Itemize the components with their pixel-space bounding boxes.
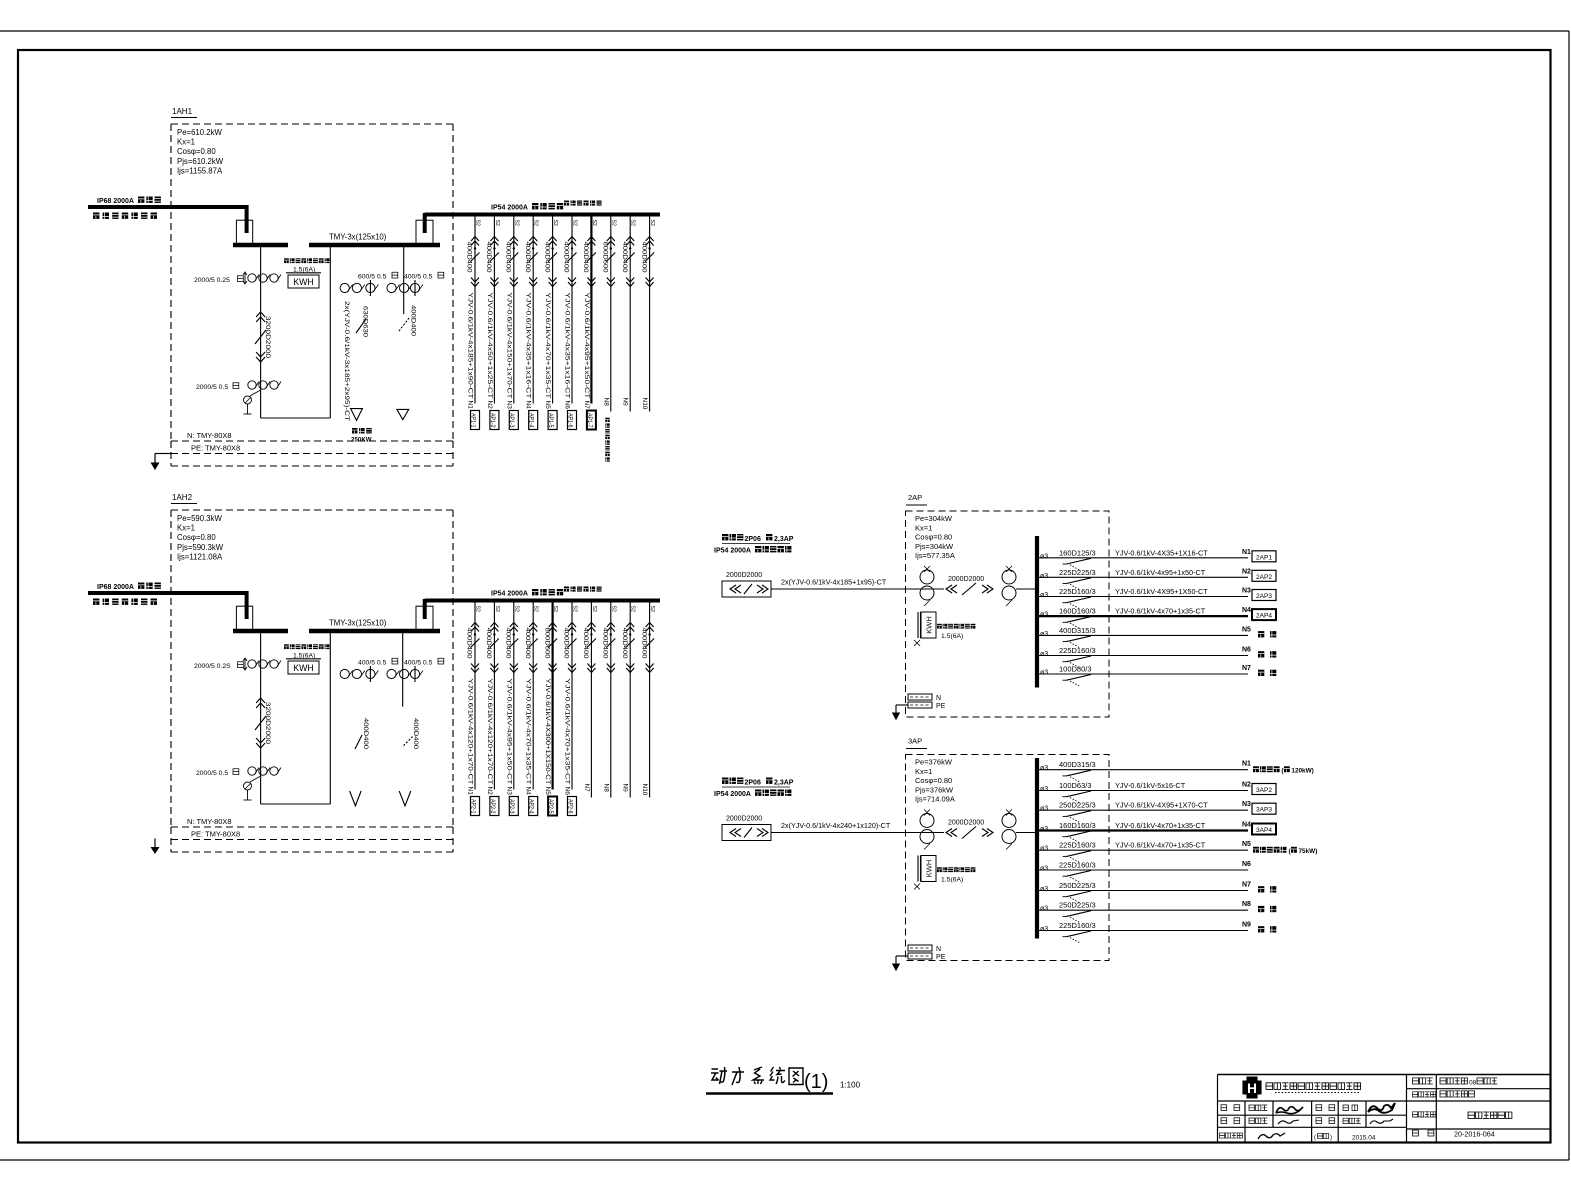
svg-text:N5: N5 bbox=[1242, 626, 1251, 633]
svg-text:600D600: 600D600 bbox=[602, 242, 609, 273]
drawout contact (upper) feeder N6 bbox=[568, 623, 576, 632]
svg-text:N10: N10 bbox=[641, 398, 648, 410]
svg-text:YJV-0.6/1kV-4x120+1x70-CT: YJV-0.6/1kV-4x120+1x70-CT bbox=[467, 679, 474, 785]
project fields right side bbox=[1407, 1088, 1551, 1090]
wire: feeder N9 drop from busway bbox=[629, 215, 631, 412]
svg-text:2x(YJV-0.6/1kV-3x185+2x95)-CT: 2x(YJV-0.6/1kV-3x185+2x95)-CT bbox=[343, 301, 350, 421]
field label: project name bbox=[1413, 1092, 1418, 1097]
svg-text:YJV-0.6/1kV-4X35+1X16-CT: YJV-0.6/1kV-4X35+1X16-CT bbox=[1115, 548, 1208, 557]
svg-text:Ijs=577.35A: Ijs=577.35A bbox=[915, 551, 955, 560]
breaker 400D400 feeder N2 bbox=[490, 253, 499, 262]
drawout contact (upper) feeder N1 bbox=[471, 623, 479, 632]
wire: feeder N8 drop from busway bbox=[610, 601, 612, 798]
svg-text:ø3: ø3 bbox=[1040, 592, 1048, 599]
distribution box AP2-6 feeder N6 bbox=[568, 797, 577, 816]
svg-text:N1: N1 bbox=[1242, 549, 1251, 556]
svg-text:2,3AP: 2,3AP bbox=[774, 536, 794, 543]
breaker 400D400 feeder N4 bbox=[529, 639, 538, 648]
svg-text:225D160/3: 225D160/3 bbox=[1059, 921, 1096, 930]
junction dot feeder N4 bbox=[532, 247, 534, 249]
svg-text:S2: S2 bbox=[513, 606, 519, 612]
svg-text:3200D2000: 3200D2000 bbox=[264, 702, 271, 744]
svg-text:400D400: 400D400 bbox=[412, 718, 419, 749]
svg-text:400D400: 400D400 bbox=[563, 628, 570, 659]
svg-text:YJV-0.6/1kV-4X300+1X150-CT: YJV-0.6/1kV-4X300+1X150-CT bbox=[544, 679, 551, 785]
svg-text:AP2-2: AP2-2 bbox=[489, 799, 495, 814]
svg-text:Kx=1: Kx=1 bbox=[177, 524, 195, 533]
svg-text:N: TMY-80X8: N: TMY-80X8 bbox=[187, 817, 232, 826]
svg-text:3200D2000: 3200D2000 bbox=[264, 316, 271, 358]
svg-text:ø3: ø3 bbox=[1040, 765, 1048, 772]
wire: feeder N10 drop from busway bbox=[649, 601, 651, 798]
svg-text:2000/5 0.25: 2000/5 0.25 bbox=[194, 277, 230, 284]
svg-text:ø3: ø3 bbox=[1040, 866, 1048, 873]
svg-text:N8: N8 bbox=[602, 398, 609, 407]
distribution box AP1-6 feeder N6 bbox=[568, 411, 577, 430]
svg-text:TMY-3x(125x10): TMY-3x(125x10) bbox=[329, 619, 387, 628]
spare label (chinese) bbox=[1258, 631, 1264, 637]
breaker 400D400 drop C bbox=[404, 736, 414, 746]
svg-text:Pjs=590.3kW: Pjs=590.3kW bbox=[177, 543, 224, 552]
wire: feeder N4 bbox=[1036, 829, 1248, 831]
incoming busway IP68 2000A for 1AH1 bbox=[88, 205, 247, 209]
svg-text:N5: N5 bbox=[1242, 841, 1251, 848]
svg-text:AP2-4: AP2-4 bbox=[528, 799, 534, 814]
svg-text:N6: N6 bbox=[1242, 861, 1251, 868]
svg-text:IP54 2000A: IP54 2000A bbox=[491, 591, 528, 598]
distribution box AP2-5 feeder N5 bbox=[548, 797, 557, 816]
wire: feeder N1 bbox=[1036, 769, 1248, 771]
svg-text:N: TMY-80X8: N: TMY-80X8 bbox=[187, 431, 232, 440]
svg-text:250D225/3: 250D225/3 bbox=[1059, 901, 1096, 910]
svg-text:600/5 0.5: 600/5 0.5 bbox=[358, 274, 387, 281]
wire: feeder N2 bbox=[1036, 790, 1248, 792]
outgoing busway IP54 2000A of 1AH1 bbox=[425, 213, 660, 217]
svg-text:ø3: ø3 bbox=[1040, 826, 1048, 833]
drawout contact (lower) feeder N10 bbox=[646, 278, 654, 287]
downstream box 2AP3 bbox=[1252, 590, 1276, 601]
downstream box 2AP4 bbox=[1252, 609, 1276, 620]
svg-text:400/5 0.5: 400/5 0.5 bbox=[404, 274, 433, 281]
distribution box AP2-2 feeder N2 bbox=[490, 797, 499, 816]
drawout contact (upper) feeder N8 bbox=[607, 623, 615, 632]
drawout contact (upper) feeder N3 bbox=[510, 237, 518, 246]
svg-text:1:100: 1:100 bbox=[840, 1081, 861, 1090]
svg-text:N1: N1 bbox=[467, 787, 474, 796]
field value: project name bbox=[1440, 1091, 1446, 1097]
breaker 400D400 feeder N3 bbox=[509, 253, 518, 262]
svg-text:YJV-0.6/1kV-4x70+1x35-CT: YJV-0.6/1kV-4x70+1x35-CT bbox=[1115, 821, 1206, 830]
junction dot feeder N5 bbox=[551, 633, 553, 635]
drawout contact (lower) feeder N4 bbox=[529, 278, 537, 287]
wire: drop C bbox=[402, 631, 404, 707]
load symbol (open V) drop C bbox=[399, 791, 411, 806]
CT (left) bbox=[920, 570, 934, 584]
drawout contact (lower) feeder N5 bbox=[549, 664, 557, 673]
svg-text:IP54 2000A: IP54 2000A bbox=[714, 791, 751, 798]
vertical distribution busbar of 2AP bbox=[1035, 536, 1039, 688]
svg-text:H: H bbox=[1247, 1081, 1257, 1096]
earthing arrow bbox=[896, 704, 908, 706]
sheet outer trim border bbox=[0, 30, 1569, 32]
wire: tie riser to busbar 2 bbox=[329, 631, 331, 804]
drawout contact (upper) feeder N9 bbox=[626, 623, 634, 632]
breaker 400D400 feeder N1 bbox=[471, 253, 480, 262]
svg-text:S2: S2 bbox=[552, 220, 558, 226]
wire: feeder N1 drop from busway bbox=[474, 601, 476, 790]
wire: to vertical busbar bbox=[1016, 832, 1036, 834]
svg-text:ø3: ø3 bbox=[1040, 926, 1048, 933]
svg-text:ø3: ø3 bbox=[1040, 906, 1048, 913]
svg-text:400D400: 400D400 bbox=[505, 242, 512, 273]
svg-text:S2: S2 bbox=[533, 606, 539, 612]
svg-text:225D160/3: 225D160/3 bbox=[1059, 861, 1096, 870]
svg-text:2x(YJV-0.6/1kV-4x185+1x95)-CT: 2x(YJV-0.6/1kV-4x185+1x95)-CT bbox=[781, 578, 887, 587]
field value: job no bbox=[1440, 1078, 1446, 1084]
svg-text:2000/5 0.5: 2000/5 0.5 bbox=[196, 770, 228, 777]
svg-text:100D80/3: 100D80/3 bbox=[1059, 665, 1092, 674]
field label: drawing name bbox=[1413, 1112, 1418, 1117]
wire: feeder N9 bbox=[1036, 930, 1248, 932]
svg-text:Cosφ=0.80: Cosφ=0.80 bbox=[177, 147, 216, 156]
wire: feeder N2 drop from busway bbox=[493, 215, 495, 404]
svg-text:2000/5 0.2S: 2000/5 0.2S bbox=[194, 663, 231, 670]
svg-text:N2: N2 bbox=[1242, 782, 1251, 789]
svg-text:1.5(6A): 1.5(6A) bbox=[941, 877, 963, 884]
distribution box AP1-5 feeder N5 bbox=[548, 411, 557, 430]
svg-text:PE: TMY-80X8: PE: TMY-80X8 bbox=[191, 830, 240, 839]
junction dot feeder N8 bbox=[610, 633, 612, 635]
svg-text:N: N bbox=[936, 946, 941, 953]
label: from substation (chinese) bbox=[93, 599, 99, 605]
wire: feeder N6 bbox=[1036, 869, 1248, 871]
drawout contact (lower) feeder N7 bbox=[587, 278, 595, 287]
drawout contact (lower) feeder N4 bbox=[529, 664, 537, 673]
svg-text:AP1-1: AP1-1 bbox=[469, 413, 475, 428]
approval grid row 1 bbox=[1221, 1105, 1227, 1111]
svg-text:N8: N8 bbox=[1242, 901, 1251, 908]
svg-text:1AH2: 1AH2 bbox=[172, 493, 193, 502]
svg-text:S2: S2 bbox=[494, 606, 500, 612]
svg-text:1.5(6A): 1.5(6A) bbox=[941, 633, 963, 640]
svg-text:Pe=590.3kW: Pe=590.3kW bbox=[177, 514, 222, 523]
svg-text:S2: S2 bbox=[610, 220, 616, 226]
svg-text:ø3: ø3 bbox=[1040, 612, 1048, 619]
svg-text:Ijs=714.09A: Ijs=714.09A bbox=[915, 795, 955, 804]
junction dot feeder N6 bbox=[571, 633, 573, 635]
drawout contact (lower) feeder N3 bbox=[510, 278, 518, 287]
spare label (chinese) bbox=[1258, 670, 1264, 676]
svg-text:2000D2000: 2000D2000 bbox=[948, 820, 984, 827]
svg-text:N7: N7 bbox=[1242, 665, 1251, 672]
svg-text:1AH1: 1AH1 bbox=[172, 107, 193, 116]
panel 1AH2 enclosure (dashed) bbox=[170, 510, 172, 827]
breaker 400D400 feeder N1 bbox=[471, 639, 480, 648]
wire: feeder N3 bbox=[1036, 809, 1248, 811]
drawout contact (upper) feeder N10 bbox=[646, 623, 654, 632]
drawout contact (upper) feeder N3 bbox=[510, 623, 518, 632]
wire: drop C bbox=[403, 245, 405, 314]
drawout contact (upper) feeder N4 bbox=[529, 623, 537, 632]
drawout contact (upper) feeder N2 bbox=[490, 623, 498, 632]
svg-text:KWH: KWH bbox=[293, 277, 314, 287]
svg-text:IP54 2000A: IP54 2000A bbox=[491, 205, 528, 212]
energy meter KWH bbox=[284, 258, 289, 263]
downstream box 3AP4 bbox=[1252, 824, 1276, 835]
svg-text:400/5 0.5: 400/5 0.5 bbox=[404, 660, 433, 667]
svg-text:N3: N3 bbox=[505, 401, 512, 410]
svg-text:Pjs=376kW: Pjs=376kW bbox=[915, 785, 954, 794]
earthing conductor with arrow bbox=[154, 839, 156, 848]
svg-text:PE: PE bbox=[936, 954, 946, 961]
breaker 400D400 drop B bbox=[355, 735, 362, 749]
svg-text:ø3: ø3 bbox=[1040, 670, 1048, 677]
breaker 400D400 feeder N10 bbox=[645, 639, 654, 648]
drawout contact (lower) feeder N2 bbox=[490, 664, 498, 673]
panel 1AH1 enclosure (dashed) bbox=[170, 124, 172, 441]
breaker 400D400 feeder N7 bbox=[587, 253, 596, 262]
svg-text:(1): (1) bbox=[804, 1071, 828, 1093]
svg-text:S2: S2 bbox=[475, 220, 481, 226]
drawout contact (lower) feeder N8 bbox=[607, 278, 615, 287]
downstream box 2AP2 bbox=[1252, 570, 1276, 581]
svg-text:3AP3: 3AP3 bbox=[1256, 807, 1272, 814]
junction dot feeder N1 bbox=[474, 633, 476, 635]
CT (left) bbox=[920, 814, 934, 828]
svg-text:N6: N6 bbox=[564, 787, 571, 796]
svg-text:YJV-0.6/1kV-4x150+1x70-CT: YJV-0.6/1kV-4x150+1x70-CT bbox=[505, 293, 512, 399]
CT (right) bbox=[1002, 570, 1016, 584]
company logo bbox=[1243, 1077, 1261, 1098]
svg-text:AP1-4: AP1-4 bbox=[528, 413, 534, 428]
breaker 600D600 feeder N8 bbox=[606, 253, 615, 262]
svg-text:(: ( bbox=[1314, 1135, 1316, 1141]
svg-text:100D63/3: 100D63/3 bbox=[1059, 781, 1092, 790]
approval grid row 3 (bottom) bbox=[1220, 1133, 1225, 1138]
svg-text:400/5 0.5: 400/5 0.5 bbox=[358, 660, 387, 667]
distribution box AP1-3 feeder N3 bbox=[509, 411, 518, 430]
svg-text:N3: N3 bbox=[1242, 588, 1251, 595]
wire: feeder N3 drop from busway bbox=[513, 601, 515, 790]
svg-text:250KW: 250KW bbox=[351, 437, 372, 444]
busbar section 1 of 1AH1 bbox=[233, 243, 288, 248]
svg-text:S2: S2 bbox=[572, 220, 578, 226]
svg-text:N3: N3 bbox=[1242, 801, 1251, 808]
svg-text:S2: S2 bbox=[630, 220, 636, 226]
svg-text:S2: S2 bbox=[630, 606, 636, 612]
svg-text:PE: TMY-80X8: PE: TMY-80X8 bbox=[191, 444, 240, 453]
svg-text:YJV-0.6/1kV-4x35+1x16-CT: YJV-0.6/1kV-4x35+1x16-CT bbox=[564, 293, 571, 399]
distribution box AP1-7 feeder N7 bbox=[587, 411, 596, 430]
svg-text:75kW): 75kW) bbox=[1299, 848, 1318, 855]
isolating link right (transformer symbol) bbox=[416, 606, 433, 630]
svg-text:N4: N4 bbox=[1242, 607, 1251, 614]
svg-text:TMY-3x(125x10): TMY-3x(125x10) bbox=[329, 233, 387, 242]
svg-text:400D400: 400D400 bbox=[543, 242, 550, 273]
svg-text:400D400: 400D400 bbox=[602, 628, 609, 659]
svg-text:YJV-0.6/1kV-4x70+1x35-CT: YJV-0.6/1kV-4x70+1x35-CT bbox=[564, 679, 571, 785]
svg-text:3AP4: 3AP4 bbox=[1256, 827, 1272, 834]
wire: feeder N5 drop from busway bbox=[552, 215, 554, 404]
svg-text:400D400: 400D400 bbox=[505, 628, 512, 659]
wire: feeder N6 drop from busway bbox=[571, 215, 573, 404]
svg-text:2AP2: 2AP2 bbox=[1256, 574, 1272, 581]
left grid bbox=[1218, 1100, 1407, 1102]
downstream box 3AP3 bbox=[1252, 803, 1276, 814]
svg-text:250D225/3: 250D225/3 bbox=[1059, 881, 1096, 890]
distribution box AP1-1 feeder N1 bbox=[471, 411, 480, 430]
svg-text:225D160/3: 225D160/3 bbox=[1059, 841, 1096, 850]
svg-text:400D400: 400D400 bbox=[640, 242, 647, 273]
svg-text:S2: S2 bbox=[533, 220, 539, 226]
title block vertical dividers bbox=[1406, 1075, 1408, 1143]
junction dot feeder N5 bbox=[551, 247, 553, 249]
svg-text:Pe=376kW: Pe=376kW bbox=[915, 758, 953, 767]
wire: tie bottom run bbox=[261, 803, 331, 805]
svg-text:400D400: 400D400 bbox=[563, 242, 570, 273]
drawout contact (lower) feeder N1 bbox=[471, 664, 479, 673]
svg-text:400D315/3: 400D315/3 bbox=[1059, 760, 1096, 769]
isolating link left (transformer symbol) bbox=[236, 220, 252, 244]
svg-text:ø3: ø3 bbox=[1040, 806, 1048, 813]
junction dot feeder N2 bbox=[493, 633, 495, 635]
wire: incoming feed bbox=[771, 588, 944, 590]
svg-text:ø3: ø3 bbox=[1040, 573, 1048, 580]
svg-text:YJV-0.6/1kV-4x70+1x35-CT: YJV-0.6/1kV-4x70+1x35-CT bbox=[544, 293, 551, 399]
energy meter KWH (rotated) bbox=[917, 612, 919, 638]
drawout contact (upper) feeder N10 bbox=[646, 237, 654, 246]
busbar section 1 of 1AH2 bbox=[233, 629, 288, 634]
svg-text:N2: N2 bbox=[1242, 568, 1251, 575]
energy meter KWH bbox=[284, 644, 289, 649]
load note 120kW bbox=[1253, 766, 1259, 772]
drawout contact (lower) feeder N9 bbox=[626, 278, 634, 287]
junction dot feeder N7 bbox=[590, 633, 592, 635]
drawout contact (lower) feeder N6 bbox=[568, 664, 576, 673]
svg-text:N6: N6 bbox=[1242, 647, 1251, 654]
svg-text:600D600: 600D600 bbox=[543, 628, 550, 659]
svg-text:AP1-5: AP1-5 bbox=[547, 413, 553, 428]
breaker 400D400 feeder N8 bbox=[606, 639, 615, 648]
spare label (chinese) bbox=[1258, 906, 1264, 912]
svg-text:Cosφ=0.80: Cosφ=0.80 bbox=[177, 533, 216, 542]
svg-text:S2: S2 bbox=[494, 220, 500, 226]
svg-text:N5: N5 bbox=[544, 401, 551, 410]
downstream box 2AP1 bbox=[1252, 551, 1276, 562]
svg-text:N4: N4 bbox=[525, 787, 532, 796]
svg-text:ø3: ø3 bbox=[1040, 846, 1048, 853]
neutral bar N bbox=[908, 945, 932, 951]
svg-text:AP2-1: AP2-1 bbox=[469, 799, 475, 814]
outgoing riser to IP54 busway bbox=[423, 599, 427, 619]
breaker 630D630 drop B bbox=[356, 319, 366, 333]
field label: drawing no bbox=[1413, 1130, 1419, 1136]
svg-text:Kx=1: Kx=1 bbox=[177, 138, 195, 147]
energy meter KWH (rotated) bbox=[917, 856, 919, 882]
junction dot feeder N10 bbox=[648, 633, 650, 635]
svg-text:Ijs=1121.08A: Ijs=1121.08A bbox=[177, 552, 223, 561]
wire: feeder N7 bbox=[1036, 673, 1248, 675]
drawout contact (lower) feeder N5 bbox=[549, 278, 557, 287]
svg-text:YJV-0.6/1kV-4X95+1X50-CT: YJV-0.6/1kV-4X95+1X50-CT bbox=[1115, 587, 1208, 596]
drawout contact (lower) feeder N3 bbox=[510, 664, 518, 673]
svg-text:AP2-6: AP2-6 bbox=[566, 799, 572, 814]
svg-text:AP1-7: AP1-7 bbox=[586, 413, 592, 428]
svg-text:160D160/3: 160D160/3 bbox=[1059, 607, 1096, 616]
svg-text:N10: N10 bbox=[641, 784, 648, 796]
drawout contact (upper) feeder N9 bbox=[626, 237, 634, 246]
svg-text:N4: N4 bbox=[1242, 822, 1251, 829]
drawing title: power system diagram (1) bbox=[711, 1067, 828, 1093]
field label: job no bbox=[1413, 1078, 1419, 1084]
spare label (chinese) bbox=[1258, 651, 1264, 657]
svg-text:2000/5 0.5: 2000/5 0.5 bbox=[196, 384, 228, 391]
wire: feeder N4 drop from busway bbox=[532, 601, 534, 790]
svg-text:400D400: 400D400 bbox=[485, 242, 492, 273]
svg-text:225D160/3: 225D160/3 bbox=[1059, 587, 1096, 596]
svg-text:IP54 2000A: IP54 2000A bbox=[714, 548, 751, 555]
busbar section 2 TMY-3x(125x10) of 1AH1 bbox=[309, 243, 440, 248]
wire: feeder N3 bbox=[1036, 596, 1248, 598]
junction dot feeder N10 bbox=[648, 247, 650, 249]
svg-text:YJV-0.6/1kV-4x95+1x50-CT: YJV-0.6/1kV-4x95+1x50-CT bbox=[583, 293, 590, 399]
junction dot feeder N4 bbox=[532, 633, 534, 635]
spare label (chinese) bbox=[1258, 926, 1264, 932]
junction dot feeder N7 bbox=[590, 247, 592, 249]
downstream box 3AP2 bbox=[1252, 784, 1276, 795]
svg-text:S2: S2 bbox=[513, 220, 519, 226]
neutral CT branch bbox=[250, 390, 261, 396]
earthing arrow bbox=[896, 955, 908, 957]
svg-text:KWH: KWH bbox=[293, 663, 314, 673]
svg-text:N5: N5 bbox=[544, 787, 551, 796]
drawout contact (lower) feeder N7 bbox=[587, 664, 595, 673]
isolating link left (transformer symbol) bbox=[236, 606, 252, 630]
junction dot feeder N9 bbox=[629, 633, 631, 635]
drawout contact (upper) feeder N5 bbox=[549, 623, 557, 632]
svg-text:AP1-6: AP1-6 bbox=[566, 413, 572, 428]
svg-text:Kx=1: Kx=1 bbox=[915, 523, 932, 532]
svg-text:ø3: ø3 bbox=[1040, 631, 1048, 638]
svg-text:2P06: 2P06 bbox=[745, 536, 761, 543]
neutral bar N bbox=[908, 694, 932, 700]
svg-text:S2: S2 bbox=[591, 606, 597, 612]
breaker 400D400 feeder N10 bbox=[645, 253, 654, 262]
approval grid row 2 bbox=[1221, 1118, 1227, 1124]
svg-text:2000D2000: 2000D2000 bbox=[726, 572, 762, 579]
svg-text:2P06: 2P06 bbox=[745, 780, 761, 787]
wire: feeder N5 bbox=[1036, 849, 1248, 851]
field value: drawing name bbox=[1468, 1112, 1474, 1118]
junction dot feeder N2 bbox=[493, 247, 495, 249]
svg-text:400D400: 400D400 bbox=[362, 718, 369, 749]
drawout contact (lower) feeder N8 bbox=[607, 664, 615, 673]
svg-text:250D225/3: 250D225/3 bbox=[1059, 801, 1096, 810]
outgoing busway IP54 2000A of 1AH2 bbox=[425, 599, 660, 603]
svg-text:2AP: 2AP bbox=[908, 493, 922, 502]
svg-text:N7: N7 bbox=[1242, 882, 1251, 889]
svg-text:2AP4: 2AP4 bbox=[1256, 613, 1272, 620]
load name label (vertical chinese) feeder N8 bbox=[605, 418, 609, 422]
junction dot feeder N3 bbox=[513, 633, 515, 635]
svg-text:N1: N1 bbox=[467, 401, 474, 410]
PE bar bbox=[908, 953, 932, 959]
breaker 400D400 drop C bbox=[399, 318, 409, 331]
drawout contact (lower) feeder N9 bbox=[626, 664, 634, 673]
breaker 400D400 feeder N7 bbox=[587, 639, 596, 648]
svg-text:400D400: 400D400 bbox=[466, 242, 473, 273]
outgoing riser to IP54 busway bbox=[423, 213, 427, 233]
